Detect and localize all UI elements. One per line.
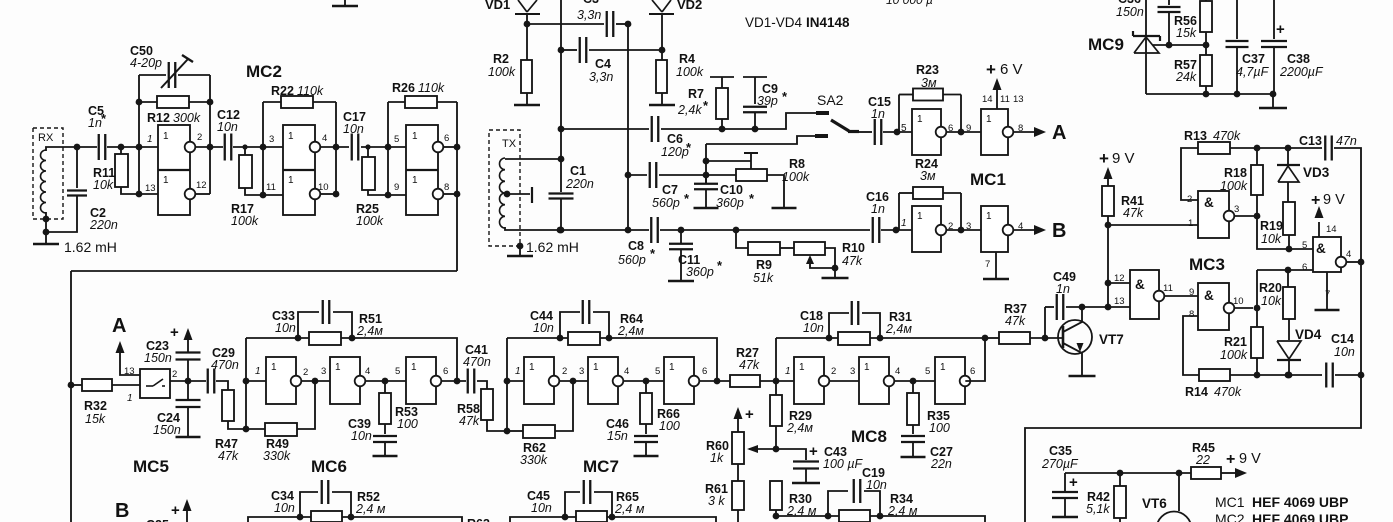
svg-text:1: 1 <box>411 362 417 373</box>
svg-text:10n: 10n <box>351 429 372 443</box>
svg-text:100k: 100k <box>676 65 704 79</box>
svg-text:10n: 10n <box>275 321 296 335</box>
svg-text:1: 1 <box>901 218 907 229</box>
svg-text:C13: C13 <box>1299 134 1322 148</box>
svg-text:2,4 м: 2,4 м <box>355 502 386 516</box>
svg-text:9 V: 9 V <box>1239 451 1261 467</box>
svg-text:8: 8 <box>1189 309 1194 320</box>
svg-text:5,1k: 5,1k <box>1086 502 1110 516</box>
svg-text:2,4м: 2,4м <box>617 324 644 338</box>
svg-text:1: 1 <box>1188 218 1193 229</box>
svg-text:4-20p: 4-20p <box>130 56 162 70</box>
svg-text:R10: R10 <box>842 241 865 255</box>
svg-text:MC2: MC2 <box>1215 511 1245 522</box>
svg-text:330k: 330k <box>520 453 548 467</box>
svg-text:110k: 110k <box>418 81 445 95</box>
svg-text:5: 5 <box>1302 240 1307 251</box>
svg-text:R14: R14 <box>1185 385 1208 399</box>
svg-text:MC3: MC3 <box>1189 255 1225 274</box>
svg-text:IN4148: IN4148 <box>806 15 850 30</box>
svg-text:9 V: 9 V <box>1323 192 1345 208</box>
svg-text:47n: 47n <box>1336 134 1357 148</box>
svg-text:C8: C8 <box>628 239 644 253</box>
svg-text:100k: 100k <box>488 65 516 79</box>
svg-text:11: 11 <box>266 182 276 193</box>
svg-text:100: 100 <box>929 421 950 435</box>
svg-text:R63: R63 <box>467 517 490 522</box>
svg-text:150n: 150n <box>144 351 172 365</box>
svg-text:100 µF: 100 µF <box>823 457 864 471</box>
svg-text:47k: 47k <box>459 414 480 428</box>
svg-text:MC8: MC8 <box>851 427 887 446</box>
svg-text:6: 6 <box>1302 262 1307 273</box>
svg-text:4,7µF: 4,7µF <box>1236 65 1270 79</box>
svg-text:R23: R23 <box>916 63 939 77</box>
svg-text:MC9: MC9 <box>1088 35 1124 54</box>
svg-text:10n: 10n <box>274 501 295 515</box>
svg-text:2: 2 <box>831 366 836 377</box>
svg-text:VD4: VD4 <box>1295 327 1322 342</box>
svg-text:+: + <box>1276 21 1285 38</box>
svg-text:R32: R32 <box>84 399 107 413</box>
svg-text:2: 2 <box>197 132 202 143</box>
svg-text:3,3n: 3,3n <box>577 8 601 22</box>
svg-text:+: + <box>986 60 996 79</box>
svg-text:51k: 51k <box>753 271 774 285</box>
svg-text:1: 1 <box>127 393 133 404</box>
svg-text:1n: 1n <box>1056 282 1070 296</box>
svg-text:47k: 47k <box>739 358 760 372</box>
svg-text:&: & <box>1135 277 1145 292</box>
svg-text:1: 1 <box>593 362 599 373</box>
svg-text:2: 2 <box>948 221 953 232</box>
svg-text:MC1: MC1 <box>1215 494 1245 510</box>
svg-text:C35: C35 <box>1049 444 1072 458</box>
svg-text:R13: R13 <box>1184 129 1207 143</box>
svg-text:12: 12 <box>1114 273 1125 284</box>
svg-text:220n: 220n <box>89 218 118 232</box>
svg-text:1: 1 <box>412 175 418 186</box>
svg-text:14: 14 <box>982 94 993 105</box>
svg-text:MC2: MC2 <box>246 62 282 81</box>
svg-text:100k: 100k <box>231 214 259 228</box>
svg-text:5: 5 <box>655 366 660 377</box>
svg-text:C3: C3 <box>583 0 599 6</box>
svg-text:12: 12 <box>196 180 207 191</box>
svg-text:B: B <box>1052 220 1066 242</box>
svg-text:270µF: 270µF <box>1041 457 1079 471</box>
svg-text:22: 22 <box>1195 453 1210 467</box>
svg-text:1: 1 <box>255 366 261 377</box>
svg-text:C1: C1 <box>570 164 586 178</box>
svg-text:1: 1 <box>147 134 153 145</box>
svg-text:4: 4 <box>365 366 370 377</box>
svg-text:TX: TX <box>502 138 517 150</box>
svg-text:1: 1 <box>412 131 418 142</box>
svg-text:C6: C6 <box>667 132 683 146</box>
svg-text:1: 1 <box>163 175 169 186</box>
svg-text:10n: 10n <box>531 501 552 515</box>
svg-text:100k: 100k <box>1220 348 1248 362</box>
svg-text:13: 13 <box>124 366 135 377</box>
svg-text:10 000 µ: 10 000 µ <box>886 0 933 7</box>
svg-text:6: 6 <box>444 133 449 144</box>
svg-text:R4: R4 <box>679 52 695 66</box>
svg-text:R7: R7 <box>688 87 704 101</box>
svg-text:1: 1 <box>785 366 791 377</box>
svg-text:C14: C14 <box>1331 332 1354 346</box>
svg-text:RX: RX <box>38 132 54 144</box>
svg-text:+: + <box>171 502 180 519</box>
svg-text:10: 10 <box>1233 296 1244 307</box>
svg-text:3 k: 3 k <box>708 494 725 508</box>
svg-text:1: 1 <box>335 362 341 373</box>
svg-text:VD1-VD4: VD1-VD4 <box>745 15 803 30</box>
svg-text:39p: 39p <box>757 94 778 108</box>
svg-text:2,4 м: 2,4 м <box>614 502 645 516</box>
svg-text:VT6: VT6 <box>1142 496 1167 511</box>
svg-text:3: 3 <box>850 366 855 377</box>
svg-text:8: 8 <box>444 182 449 193</box>
svg-text:1: 1 <box>799 362 805 373</box>
svg-text:360p: 360p <box>716 196 744 210</box>
svg-text:4: 4 <box>895 366 900 377</box>
svg-text:C7: C7 <box>662 183 678 197</box>
svg-text:+: + <box>1311 192 1320 209</box>
svg-text:3,3n: 3,3n <box>589 70 613 84</box>
svg-text:+: + <box>1069 474 1078 491</box>
svg-text:9 V: 9 V <box>1112 150 1135 167</box>
svg-text:+: + <box>745 406 754 423</box>
svg-text:3м: 3м <box>921 76 937 90</box>
svg-text:R21: R21 <box>1224 335 1247 349</box>
svg-text:4: 4 <box>1346 249 1351 260</box>
svg-text:R12: R12 <box>147 111 170 125</box>
svg-text:R19: R19 <box>1260 219 1283 233</box>
svg-text:1: 1 <box>288 131 294 142</box>
svg-text:1: 1 <box>529 362 535 373</box>
svg-text:5: 5 <box>925 366 930 377</box>
svg-text:10n: 10n <box>343 122 364 136</box>
svg-text:3: 3 <box>1234 204 1239 215</box>
svg-text:2: 2 <box>562 366 567 377</box>
svg-text:C4: C4 <box>595 57 611 71</box>
svg-text:R22: R22 <box>271 84 294 98</box>
svg-text:3: 3 <box>269 134 274 145</box>
svg-text:VT7: VT7 <box>1099 332 1124 347</box>
svg-text:15n: 15n <box>607 429 628 443</box>
svg-text:2200µF: 2200µF <box>1279 65 1324 79</box>
svg-text:10n: 10n <box>533 321 554 335</box>
svg-text:1: 1 <box>917 211 923 222</box>
svg-text:360p: 360p <box>686 265 714 279</box>
svg-text:B: B <box>115 500 129 522</box>
svg-text:11: 11 <box>1000 94 1010 105</box>
svg-text:C38: C38 <box>1287 52 1310 66</box>
svg-text:VD1: VD1 <box>485 0 510 12</box>
svg-text:R18: R18 <box>1224 166 1247 180</box>
svg-text:4: 4 <box>624 366 629 377</box>
svg-text:2: 2 <box>172 369 177 380</box>
svg-text:R9: R9 <box>756 258 772 272</box>
svg-text:2,4м: 2,4м <box>885 322 912 336</box>
svg-text:330k: 330k <box>263 449 291 463</box>
svg-text:47k: 47k <box>842 254 863 268</box>
svg-text:24k: 24k <box>1175 70 1197 84</box>
svg-text:R8: R8 <box>789 157 805 171</box>
svg-text:&: & <box>1316 241 1326 256</box>
svg-text:7: 7 <box>985 259 990 270</box>
svg-text:VD2: VD2 <box>677 0 702 12</box>
svg-text:&: & <box>1204 288 1214 303</box>
svg-text:+: + <box>809 443 818 460</box>
svg-text:1: 1 <box>917 114 923 125</box>
svg-text:1: 1 <box>288 175 294 186</box>
svg-text:9: 9 <box>1189 287 1194 298</box>
svg-text:VD3: VD3 <box>1303 165 1330 180</box>
svg-text:4: 4 <box>1018 221 1023 232</box>
svg-text:3: 3 <box>966 221 971 232</box>
svg-text:470k: 470k <box>1214 385 1242 399</box>
svg-text:&: & <box>1204 195 1214 210</box>
svg-text:470n: 470n <box>211 358 239 372</box>
svg-text:300k: 300k <box>173 111 201 125</box>
svg-text:220n: 220n <box>565 177 594 191</box>
svg-text:10k: 10k <box>1261 232 1282 246</box>
svg-text:13: 13 <box>1013 94 1024 105</box>
svg-text:1: 1 <box>986 211 992 222</box>
svg-text:HEF 4069 UBP: HEF 4069 UBP <box>1252 511 1348 522</box>
svg-text:470n: 470n <box>463 355 491 369</box>
svg-text:5: 5 <box>395 366 400 377</box>
svg-text:15k: 15k <box>85 412 106 426</box>
svg-text:R20: R20 <box>1259 281 1282 295</box>
svg-text:5: 5 <box>394 134 399 145</box>
svg-text:2,4м: 2,4м <box>356 324 383 338</box>
svg-text:47k: 47k <box>1123 206 1144 220</box>
svg-text:8: 8 <box>1018 123 1023 134</box>
svg-text:47k: 47k <box>1005 314 1026 328</box>
svg-text:2: 2 <box>303 367 308 378</box>
svg-text:2,4м: 2,4м <box>786 421 813 435</box>
svg-text:1n: 1n <box>88 116 102 130</box>
svg-text:100k: 100k <box>356 214 384 228</box>
svg-text:MC6: MC6 <box>311 457 347 476</box>
svg-text:C25: C25 <box>146 518 169 522</box>
svg-text:10k: 10k <box>93 178 114 192</box>
svg-text:10n: 10n <box>866 478 887 492</box>
svg-text:6 V: 6 V <box>1000 61 1023 78</box>
svg-text:+: + <box>170 324 179 341</box>
svg-text:120p: 120p <box>661 145 689 159</box>
svg-text:1: 1 <box>515 366 521 377</box>
svg-text:100k: 100k <box>1220 179 1248 193</box>
svg-text:6: 6 <box>702 366 707 377</box>
svg-text:560p: 560p <box>618 253 646 267</box>
svg-text:10n: 10n <box>217 120 238 134</box>
svg-text:1: 1 <box>864 362 870 373</box>
svg-text:MC7: MC7 <box>583 457 619 476</box>
svg-text:C37: C37 <box>1242 52 1265 66</box>
svg-text:110k: 110k <box>297 84 324 98</box>
svg-text:1: 1 <box>940 362 946 373</box>
svg-text:10k: 10k <box>1261 294 1282 308</box>
svg-text:6: 6 <box>443 366 448 377</box>
svg-text:A: A <box>1052 122 1066 144</box>
svg-text:470k: 470k <box>1213 129 1241 143</box>
svg-text:1.62 mH: 1.62 mH <box>526 239 579 255</box>
svg-text:100: 100 <box>397 417 418 431</box>
svg-text:13: 13 <box>1114 296 1125 307</box>
svg-text:SA2: SA2 <box>817 92 844 108</box>
svg-text:150n: 150n <box>1116 5 1144 19</box>
svg-text:1n: 1n <box>871 202 885 216</box>
svg-text:6: 6 <box>970 366 975 377</box>
svg-text:10: 10 <box>318 182 329 193</box>
svg-text:1: 1 <box>669 362 675 373</box>
svg-text:47k: 47k <box>218 449 239 463</box>
svg-text:1: 1 <box>163 131 169 142</box>
svg-text:1: 1 <box>271 362 277 373</box>
svg-text:2,4k: 2,4k <box>677 103 702 117</box>
svg-text:MC5: MC5 <box>133 457 169 476</box>
svg-text:C10: C10 <box>720 183 743 197</box>
svg-text:1k: 1k <box>710 451 724 465</box>
svg-text:+: + <box>1226 451 1235 468</box>
svg-text:3м: 3м <box>920 169 936 183</box>
svg-text:100k: 100k <box>782 170 810 184</box>
svg-text:A: A <box>112 315 126 337</box>
svg-text:1n: 1n <box>871 107 885 121</box>
svg-text:R2: R2 <box>493 52 509 66</box>
svg-text:6: 6 <box>948 123 953 134</box>
svg-text:2,4 м: 2,4 м <box>887 504 918 518</box>
svg-text:1.62 mH: 1.62 mH <box>64 239 117 255</box>
svg-text:3: 3 <box>321 366 326 377</box>
svg-text:R26: R26 <box>392 81 415 95</box>
svg-text:9: 9 <box>394 182 399 193</box>
svg-text:150n: 150n <box>153 423 181 437</box>
svg-text:10n: 10n <box>1334 345 1355 359</box>
svg-text:7: 7 <box>1325 289 1330 300</box>
svg-text:1: 1 <box>986 114 992 125</box>
svg-text:14: 14 <box>1326 224 1337 235</box>
svg-text:560p: 560p <box>652 196 680 210</box>
svg-text:5: 5 <box>901 123 907 134</box>
svg-text:MC1: MC1 <box>970 170 1006 189</box>
svg-text:15k: 15k <box>1176 26 1197 40</box>
svg-text:+: + <box>1099 149 1109 168</box>
svg-text:10n: 10n <box>803 321 824 335</box>
svg-text:HEF 4069 UBP: HEF 4069 UBP <box>1252 494 1348 510</box>
svg-text:100: 100 <box>659 419 680 433</box>
svg-text:22n: 22n <box>930 457 952 471</box>
svg-text:9: 9 <box>966 123 971 134</box>
svg-text:4: 4 <box>322 133 327 144</box>
svg-text:13: 13 <box>145 183 156 194</box>
svg-text:3: 3 <box>579 366 584 377</box>
svg-text:11: 11 <box>1163 283 1173 294</box>
